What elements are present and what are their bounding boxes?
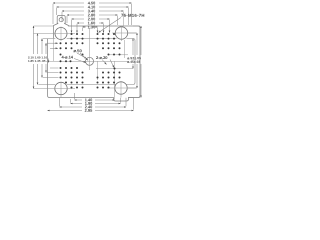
part number leader — [99, 18, 122, 33]
extension lines bottom — [60, 93, 134, 110]
dim 2.40 — [60, 106, 127, 108]
body outer outline with top tab and bottom tab — [48, 16, 141, 102]
keyed hole 2 centerlines — [96, 62, 133, 100]
dim right outer — [140, 26, 142, 98]
dim 2.80 — [67, 14, 118, 16]
svg-text:⌀.50: ⌀.50 — [73, 48, 82, 53]
right dimension stack — [128, 26, 141, 98]
dim left outer — [33, 26, 35, 89]
crosshair bottom-right — [107, 81, 137, 98]
svg-text:1.85 1.35 .85: 1.85 1.35 .85 — [28, 59, 46, 63]
right extension lines — [128, 26, 140, 98]
dim 1.30 — [83, 26, 98, 28]
dim left 4 — [45, 43, 47, 72]
top dim labels — [88, 0, 96, 29]
extension lines top left — [53, 4, 83, 31]
dim 4.10 — [57, 6, 129, 8]
svg-text:2.95: 2.95 — [85, 108, 93, 113]
dim 1.40 — [75, 99, 115, 101]
svg-text:4-⌀.14: 4-⌀.14 — [61, 54, 73, 59]
tab head hole — [59, 18, 63, 22]
dim left 2 — [37, 34, 39, 85]
svg-text:1.30: 1.30 — [88, 24, 96, 29]
extension top edge to left stack — [34, 25, 54, 27]
leader 4-d14 — [74, 59, 86, 63]
leader 2-d20 — [110, 60, 114, 68]
crosshair top-left — [34, 27, 76, 42]
extension lines top right — [118, 4, 132, 25]
leader diam 50 — [77, 53, 87, 59]
dim 1.90 — [71, 103, 121, 105]
contact hole grid — [60, 33, 121, 89]
centerline end arrow — [48, 59, 50, 63]
bottom dim labels — [85, 97, 93, 113]
right dim labels — [127, 56, 141, 64]
left dim labels (rotated) — [28, 56, 48, 64]
dim 2.00 — [72, 18, 110, 20]
body inner outline — [48, 39, 136, 85]
dim right mid — [136, 33, 138, 88]
row centerline right — [108, 54, 128, 56]
mounting hole bottom-right — [115, 82, 127, 94]
mounting hole bottom-left — [55, 82, 67, 94]
center hole — [86, 57, 94, 65]
center hole centerlines — [46, 28, 128, 70]
dim left 3 — [41, 39, 43, 78]
svg-text:2-⌀.20: 2-⌀.20 — [96, 55, 108, 60]
dim right inner — [132, 39, 134, 69]
left dimension stack — [34, 26, 59, 89]
svg-text:⌀.45±.03: ⌀.45±.03 — [127, 60, 140, 64]
dim 2.95 — [48, 110, 134, 112]
svg-text:76-M16-7H: 76-M16-7H — [121, 13, 145, 18]
dim 1.60 — [77, 22, 104, 24]
left extension lines — [38, 39, 58, 85]
dim 3.40 — [62, 10, 124, 12]
dim 4.50 — [53, 2, 132, 4]
mounting hole top-right — [115, 27, 127, 39]
top dimension stack — [53, 3, 132, 33]
tab side extension into body — [54, 39, 98, 80]
extension column lines to first row — [71, 20, 73, 33]
crosshair top-right — [112, 26, 137, 41]
bottom dimension stack — [48, 93, 134, 111]
crosshair bottom-left — [34, 82, 76, 98]
extension line col right — [124, 12, 125, 58]
mounting hole top-left — [55, 28, 67, 40]
